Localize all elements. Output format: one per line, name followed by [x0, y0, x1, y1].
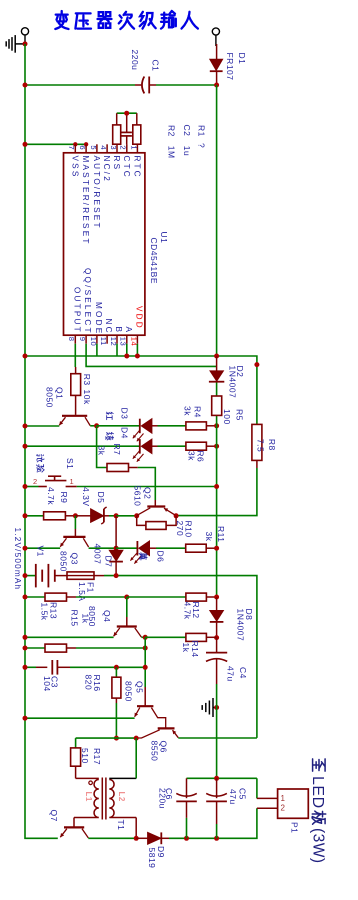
- svg-text:C2: C2: [182, 125, 192, 137]
- label Q1 value 8050: [44, 387, 54, 408]
- label D5 value 4.3V: [81, 487, 91, 507]
- node junction (25,356): [23, 354, 28, 359]
- wire R13 to Q4 base node: [76, 596, 127, 598]
- label F1 value 1.5A: [77, 582, 87, 602]
- wire L2 bottom to output node: [135, 818, 137, 839]
- svg-text:MASTER/RESET: MASTER/RESET: [81, 156, 90, 246]
- label C2 designator and value 1u: [182, 125, 192, 157]
- wire to pins 7 and 6 y=144.3: [25, 143, 86, 145]
- U1 pin name QQ/SELECT: [83, 268, 92, 335]
- node junction (176.1,515.8): [174, 513, 179, 518]
- transistor Q6 8550: [136, 728, 178, 738]
- label U1 value CD4541BE: [149, 238, 159, 285]
- label Q6 designator: [159, 741, 169, 753]
- label R7 value 3k: [96, 446, 106, 456]
- label R11 value 3k: [204, 532, 214, 542]
- resistor R11 3k: [186, 544, 217, 552]
- svg-text:1: 1: [281, 794, 286, 803]
- svg-text:1: 1: [129, 145, 138, 150]
- wire pin14 drop: [136, 344, 138, 356]
- svg-text:NC/2: NC/2: [102, 156, 111, 183]
- label P1 designator: [290, 822, 300, 833]
- node junction pin13 (126.8,356): [124, 354, 129, 359]
- label R14 value 1k: [181, 643, 191, 653]
- resistor R1 ?: [133, 113, 141, 144]
- label Q5 designator: [134, 681, 144, 693]
- label R16 designator: [92, 675, 102, 692]
- wire D4 to R6: [158, 445, 186, 447]
- resistor R12 4.7k: [186, 593, 217, 601]
- svg-text:R15: R15: [70, 610, 80, 627]
- wire C4 to ground rail: [216, 684, 218, 778]
- transistor Q5 8050: [135, 687, 166, 728]
- svg-text:270: 270: [175, 521, 185, 537]
- svg-text:3k: 3k: [183, 406, 193, 416]
- wire to R12: [127, 596, 186, 598]
- battery V1 1.2V/500mAh: [36, 564, 67, 588]
- label Q2 designator: [142, 487, 152, 499]
- svg-text:D6: D6: [156, 551, 166, 563]
- svg-text:C1: C1: [151, 60, 161, 72]
- resistor R4 3k: [186, 422, 217, 430]
- wire right rail x=216.6 y=356..597: [216, 382, 218, 597]
- svg-text:820: 820: [83, 675, 93, 691]
- svg-text:2: 2: [33, 477, 37, 486]
- svg-text:1u: 1u: [182, 146, 192, 156]
- node junction (186.5,838.3): [184, 836, 189, 841]
- wire rail to battery: [25, 575, 36, 577]
- svg-text:OUTPUT: OUTPUT: [72, 287, 81, 334]
- U1 pin name B: [114, 327, 123, 335]
- wire Q3 collector to D6 row: [89, 547, 117, 549]
- wire top horizontal y=85 left of C1: [25, 84, 135, 86]
- label D2 designator: [235, 366, 245, 378]
- svg-text:RS: RS: [112, 156, 121, 172]
- svg-text:R1: R1: [197, 125, 207, 137]
- U1 top pin stubs pins 7 6 5 4 3 2 1: [75, 144, 137, 153]
- label R15 designator: [70, 610, 80, 627]
- svg-text:FR107: FR107: [225, 53, 235, 81]
- connector P1: [257, 789, 308, 818]
- transistor Q7: [60, 818, 88, 838]
- svg-text:1.5k: 1.5k: [40, 603, 50, 621]
- label U1 designator: [159, 232, 169, 244]
- label Q1 designator: [55, 387, 65, 399]
- node junction (25,597): [23, 595, 28, 600]
- node junction pin7 (75.3,144.3): [73, 142, 77, 146]
- label D4 designator: [120, 427, 130, 439]
- node junction (145.2,637.3): [143, 635, 148, 640]
- label F1 designator: [86, 582, 96, 593]
- label C5 designator: [238, 788, 248, 800]
- label R3 designator and value 10k: [82, 374, 92, 405]
- label V1 value 1.2V/500mAh: [13, 528, 22, 591]
- label D7 value 4007: [93, 544, 103, 565]
- label T1 designator: [116, 820, 126, 831]
- label C3 designator: [50, 676, 60, 688]
- wire D5 to node: [109, 515, 116, 517]
- label C4 value 47u: [226, 666, 236, 682]
- label Q6 value 8550: [150, 741, 160, 762]
- wire R15 to Q5 base vertical: [76, 647, 145, 649]
- label R16 value 820: [83, 675, 93, 691]
- label D6 colour 黄: [139, 553, 147, 560]
- U1 pin name NC/2: [102, 156, 111, 183]
- svg-text:8050: 8050: [59, 551, 69, 572]
- resistor R15 1k: [45, 644, 76, 652]
- resistor R5 100: [212, 396, 222, 415]
- svg-text:L1: L1: [84, 792, 93, 802]
- node junction (216.6,356): [214, 354, 219, 359]
- label D5 designator: [96, 492, 106, 504]
- label C1 value 220u: [130, 50, 140, 71]
- label D9 value 5819: [147, 848, 157, 869]
- svg-text:1k: 1k: [181, 643, 191, 653]
- label C3 value 104: [42, 676, 52, 692]
- svg-text:47u: 47u: [228, 789, 238, 805]
- svg-text:R9: R9: [59, 492, 69, 504]
- svg-text:P1: P1: [290, 822, 300, 833]
- label R9 value 4.7k: [46, 487, 56, 505]
- wire rail to R9: [25, 515, 44, 517]
- label Q3 value 8050: [59, 551, 69, 572]
- svg-text:L2: L2: [117, 792, 126, 802]
- transistor Q3 8050: [60, 529, 88, 547]
- wire Q1 collector vertical to R7: [97, 426, 107, 468]
- wire pin8 to R3: [74, 344, 76, 367]
- U1 bottom pin numbers 8 9 10 11 12 13: [67, 337, 128, 346]
- diode D8 1N4007: [210, 597, 224, 638]
- label C6 designator: [164, 788, 174, 800]
- node junction (25,85): [23, 83, 28, 88]
- svg-text:10k: 10k: [82, 390, 92, 405]
- svg-text:R11: R11: [216, 526, 226, 542]
- P1 pin number 1: [281, 794, 286, 803]
- wire right rail x=216.6 from y=85 to y=356: [216, 85, 218, 356]
- wire Q6 collector row y=738.1: [76, 737, 137, 739]
- svg-text:4: 4: [99, 145, 108, 150]
- svg-text:D1: D1: [237, 53, 247, 65]
- svg-text:2: 2: [281, 804, 286, 813]
- label D2 value 1N4007: [227, 366, 237, 399]
- label R10 designator: [184, 521, 194, 538]
- LED D3 red: [133, 419, 158, 442]
- svg-text:MODE: MODE: [94, 302, 103, 335]
- resistor R3 10k: [71, 367, 81, 415]
- svg-text:8: 8: [67, 337, 76, 342]
- label R4 value 3k: [183, 406, 193, 416]
- label R2 designator and value 1M: [167, 125, 177, 159]
- svg-text:LED: LED: [309, 776, 326, 809]
- svg-text:QQ/SELECT: QQ/SELECT: [83, 268, 92, 335]
- resistor R10 270: [137, 516, 176, 530]
- resistor R6 3k: [186, 442, 217, 450]
- svg-text:9: 9: [78, 337, 87, 342]
- node junction (116.4,667.3): [114, 665, 119, 670]
- node junction (25,718.2): [23, 716, 28, 721]
- capacitor C1: [135, 77, 156, 94]
- node junction (116.1,575.6): [114, 573, 119, 578]
- node junction (216.6,637.6): [214, 635, 219, 640]
- svg-text:3k: 3k: [96, 446, 106, 456]
- node junction pin14 (137.4,356): [135, 354, 140, 359]
- LED D6 yellow: [116, 541, 156, 564]
- U1 pin name AUTO/RESET: [92, 156, 101, 230]
- svg-text:Q1: Q1: [55, 387, 65, 399]
- wire L2 top to Q6 collector node: [135, 738, 137, 778]
- node junction (216.6,838.3): [214, 836, 219, 841]
- svg-text:3k: 3k: [204, 532, 214, 542]
- svg-text:5: 5: [89, 145, 98, 150]
- U1 pin name CTC: [122, 156, 131, 179]
- svg-text:NC: NC: [104, 319, 113, 335]
- label D7 designator: [104, 556, 114, 568]
- svg-text:4007: 4007: [93, 544, 103, 565]
- svg-text:8050: 8050: [123, 681, 133, 702]
- fuse F1 1.5A: [67, 572, 104, 579]
- label C1 designator: [151, 60, 161, 72]
- wire pin12 drop: [116, 344, 118, 356]
- node junction (216.6,707.5): [214, 705, 219, 710]
- node junction (96.6,425.8): [94, 423, 99, 428]
- svg-text:8550: 8550: [150, 741, 160, 762]
- svg-text:R17: R17: [92, 748, 102, 765]
- svg-text:5819: 5819: [147, 848, 157, 869]
- wire R8 bottom to Q2 emitter line: [176, 468, 257, 516]
- transistor Q2 5610: [137, 500, 175, 515]
- label R10 value 270: [175, 521, 185, 537]
- label Q7 designator: [49, 810, 59, 822]
- wire vertical Q4 collector to Q5 base: [144, 637, 146, 687]
- node junction (216.6,597): [214, 595, 219, 600]
- wire top horizontal y=85 right of C1: [156, 84, 217, 86]
- svg-text:1.5A: 1.5A: [77, 582, 87, 602]
- svg-text:D3: D3: [120, 408, 130, 420]
- svg-text:R5: R5: [235, 409, 245, 421]
- label R5 value 100: [222, 409, 232, 425]
- label R12 designator: [191, 602, 201, 619]
- node junction (25,575.6): [23, 573, 28, 578]
- label R4 designator: [193, 406, 203, 418]
- wire rail to R15: [25, 647, 45, 649]
- transformer T1 core: [102, 778, 106, 820]
- node junction (216.6,778.3): [214, 776, 219, 781]
- node junction (25,667.3): [23, 665, 28, 670]
- svg-text:8050: 8050: [44, 387, 54, 408]
- svg-text:510: 510: [80, 748, 90, 764]
- capacitor C2 1u: [122, 113, 132, 144]
- svg-text:Q4: Q4: [102, 610, 112, 622]
- svg-text:RTC: RTC: [132, 156, 141, 179]
- svg-text:T1: T1: [116, 820, 126, 831]
- svg-text:CTC: CTC: [122, 156, 131, 179]
- node junction (136.2,738.1): [134, 736, 139, 741]
- wire D6 to R11: [156, 547, 186, 549]
- U1 pin name MASTER/RESET: [81, 156, 90, 246]
- wire Q4 collector to node: [141, 636, 145, 638]
- U1 pin name OUTPUT: [72, 287, 81, 334]
- wire net y=366.4 from pin9: [86, 344, 217, 367]
- P1 pin number 2: [281, 804, 286, 813]
- U1 bottom pin stubs pins 8 9 10 11 12 13 14: [75, 335, 137, 344]
- diode D1 FR107: [210, 44, 223, 85]
- wire net y=356 from rail to R8 corner: [25, 356, 257, 424]
- label D8 designator: [244, 609, 254, 621]
- label S1 test 试验: [36, 454, 44, 472]
- svg-text:1N4007: 1N4007: [236, 609, 246, 642]
- label C5 value 47u: [228, 789, 238, 805]
- wire left rail vertical x=25: [25, 44, 58, 838]
- node junction (25,446.2): [23, 444, 28, 449]
- label R11 designator: [216, 526, 226, 542]
- wire P1 pin1 riser: [256, 778, 258, 798]
- label R12 value 4.7k: [183, 602, 193, 620]
- wire rail to C3: [25, 666, 36, 668]
- svg-text:2: 2: [119, 145, 128, 150]
- label D4 colour 绿: [106, 432, 114, 440]
- wire Q4 collector row to R14: [145, 636, 186, 638]
- svg-text:100: 100: [222, 409, 232, 425]
- svg-text:C4: C4: [238, 667, 248, 679]
- label L2: [117, 792, 126, 802]
- label D3 designator: [120, 408, 130, 420]
- wire D5 node to Q3 base: [74, 516, 76, 529]
- label R17 value 510: [80, 748, 90, 764]
- svg-text:A: A: [124, 327, 133, 335]
- label Q3 designator: [70, 553, 80, 565]
- svg-text:Q2: Q2: [142, 487, 152, 499]
- svg-text:AUTO/RESET: AUTO/RESET: [92, 156, 101, 230]
- wire C3 row to Q5 base vertical: [70, 666, 145, 668]
- node junction (216.6,446.2): [214, 444, 219, 449]
- svg-text:220u: 220u: [130, 50, 140, 71]
- label V1 designator: [36, 546, 46, 557]
- svg-text:VDD: VDD: [134, 306, 143, 330]
- wire rail to Q4 emitter y=637.3: [25, 636, 114, 638]
- node junction D1 cathode (216.6,85): [214, 83, 219, 88]
- label C6 value 220u: [158, 788, 168, 809]
- title text 变压器次级输入: [55, 11, 198, 29]
- resistor R7 3k: [107, 464, 138, 472]
- terminal circle top-right: [212, 28, 219, 46]
- label Q4 designator: [102, 610, 112, 622]
- node junction (25,486.5): [23, 484, 28, 489]
- node junction (25,426): [23, 424, 28, 429]
- U1 bottom pin number 14 red: [129, 337, 138, 346]
- svg-text:S1: S1: [65, 458, 75, 469]
- wire rail to Q5 emitter y=718.2: [25, 717, 135, 719]
- wire Q3 emitter to rail: [25, 547, 60, 549]
- transformer T1 primary L1 winding: [74, 778, 99, 817]
- node junction (216.6,425.8): [214, 423, 219, 428]
- svg-text:1: 1: [70, 477, 74, 486]
- wire Q1 collector to node: [90, 425, 96, 427]
- node junction (116.1,515.8): [114, 513, 119, 518]
- label D1 designator: [237, 53, 247, 65]
- wire pin13 drop: [126, 344, 128, 356]
- svg-text:Q3: Q3: [70, 553, 80, 565]
- svg-text:3: 3: [109, 145, 118, 150]
- diode D2 1N4007: [209, 356, 224, 382]
- label D3 colour 红: [106, 412, 113, 420]
- label R13 value 1.5k: [40, 603, 50, 621]
- svg-text:?: ?: [197, 143, 207, 148]
- label R17 designator: [92, 748, 102, 765]
- transistor Q1 8050: [59, 416, 90, 426]
- svg-text:D4: D4: [120, 427, 130, 439]
- node junction (126.8,597): [124, 595, 129, 600]
- wire L2 top lead black: [109, 777, 136, 779]
- zener diode D5 4.3V: [75, 507, 109, 524]
- label R15 value 1k: [81, 614, 91, 624]
- svg-text:U1: U1: [159, 232, 169, 244]
- node junction (25,648): [23, 646, 28, 651]
- svg-text:VSS: VSS: [70, 156, 79, 179]
- node junction (216.6,548.2): [214, 546, 219, 551]
- resistor R13 1.5k: [45, 593, 76, 601]
- label R1 designator and value ?: [197, 125, 207, 148]
- wire to Q2 collector node: [116, 515, 137, 517]
- node junction (25,515.8): [23, 513, 28, 518]
- node junction (126.7,113.2): [124, 111, 129, 116]
- resistor R17 510: [71, 738, 81, 778]
- wire output top row y=778.3: [187, 777, 257, 779]
- wire D9 to P1 pin2 corner: [169, 808, 257, 838]
- svg-text:R4: R4: [193, 406, 203, 418]
- node junction (116.1,548.2): [114, 546, 119, 551]
- U1 top pin numbers 7 6 5 4 3 2 1: [67, 145, 138, 150]
- label R7 designator: [112, 444, 122, 456]
- wire D3 row left: [97, 425, 140, 427]
- wire Q1 emitter to rail y=426: [25, 425, 59, 427]
- svg-text:7.5: 7.5: [256, 439, 266, 452]
- transistor Q4 8050: [114, 617, 142, 637]
- svg-text:R3: R3: [82, 374, 92, 386]
- diode D9 5819: [136, 832, 169, 844]
- U1 pin name VSS: [70, 156, 79, 179]
- node junction (136.2,838.3): [134, 836, 139, 841]
- wire Q6 emitter to right corner y=738: [178, 737, 257, 739]
- svg-text:B: B: [114, 327, 123, 335]
- svg-text:(3W): (3W): [309, 828, 326, 864]
- U1 pin name RS: [112, 156, 121, 172]
- resistor R2 1M: [113, 113, 121, 144]
- svg-text:R8: R8: [267, 439, 277, 451]
- switch S1: [39, 476, 77, 486]
- label L1: [84, 792, 93, 802]
- label R14 designator: [190, 641, 200, 658]
- svg-text:6: 6: [78, 145, 87, 150]
- svg-text:R7: R7: [112, 444, 122, 456]
- wire pin10 drop: [96, 344, 98, 356]
- capacitor C6 220u: [176, 778, 197, 838]
- U1 pin name VDD red: [134, 306, 143, 330]
- resistor R8 7.5: [252, 424, 262, 468]
- label R6 value 3k: [187, 451, 197, 461]
- node junction (216.6,486.5): [214, 484, 219, 489]
- label R9 designator: [59, 492, 69, 504]
- svg-text:Q7: Q7: [49, 810, 59, 822]
- wire R7 to Q2 base: [138, 468, 156, 501]
- ground GND1 top-left: [6, 35, 25, 53]
- svg-text:D7: D7: [104, 556, 114, 568]
- label Q5 value 8050: [123, 681, 133, 702]
- wire S1 to rail right y=486.5: [77, 486, 217, 488]
- svg-text:11: 11: [99, 337, 108, 346]
- svg-text:1M: 1M: [167, 146, 177, 159]
- node junction (136.7,515.8): [134, 513, 139, 518]
- svg-text:1.2V/500mAh: 1.2V/500mAh: [13, 528, 22, 591]
